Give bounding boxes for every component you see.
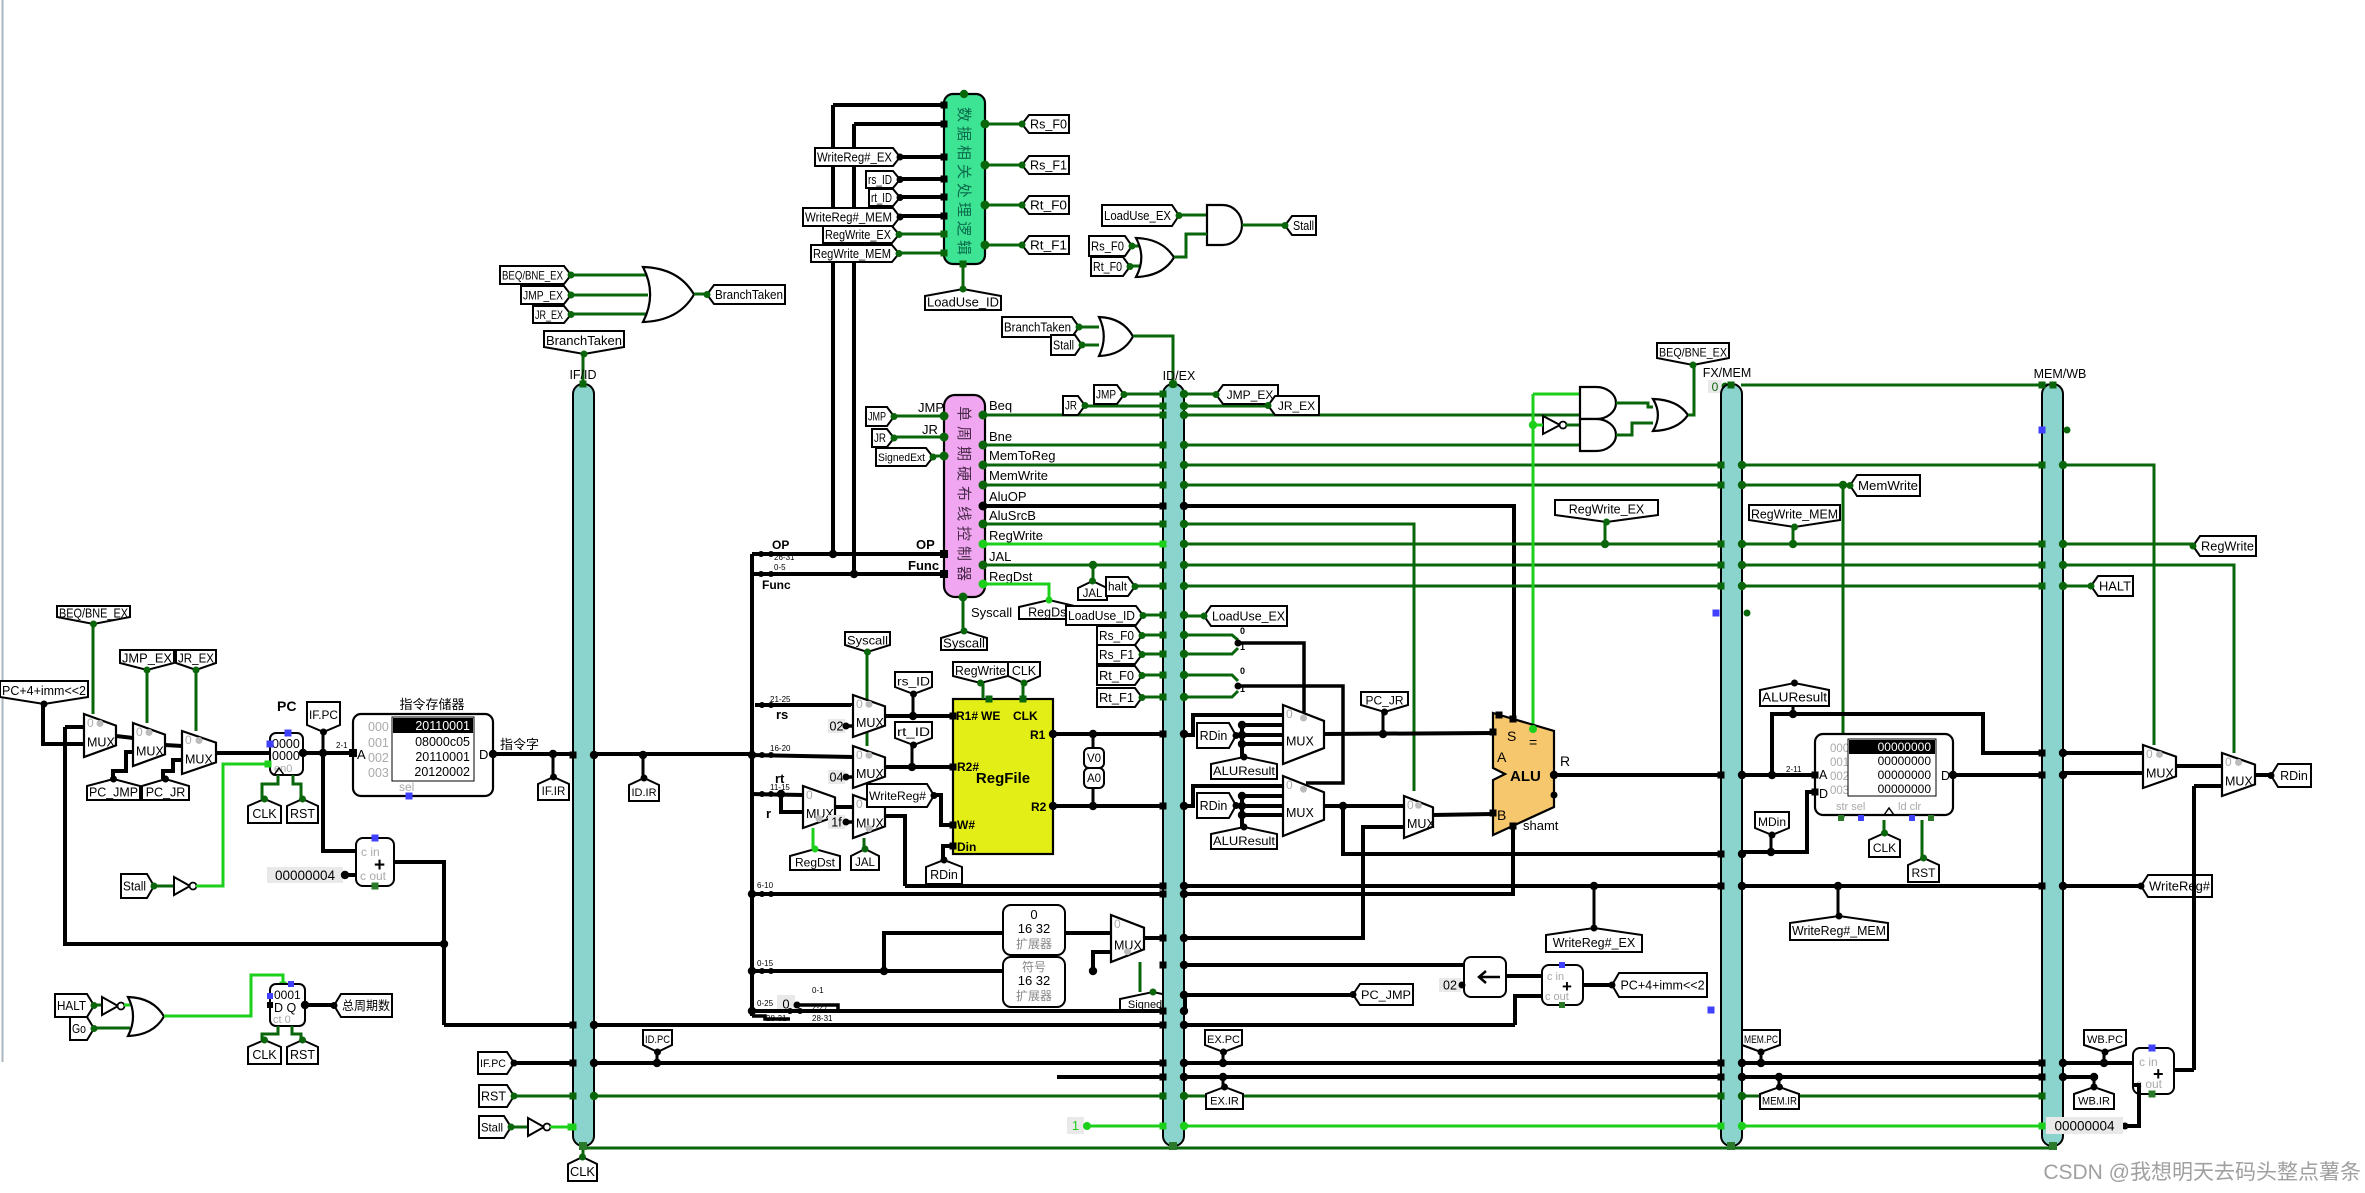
svg-text:rs_ID: rs_ID <box>868 173 892 187</box>
tunnel RegWrite_MEM (tap) <box>1749 505 1840 527</box>
svg-text:A: A <box>1497 749 1507 765</box>
svg-text:002: 002 <box>368 751 389 765</box>
svg-text:D Q: D Q <box>274 1001 297 1015</box>
tunnel Rs_F0 out <box>1022 115 1069 133</box>
svg-text:MUX: MUX <box>856 716 884 730</box>
wire RegWrite (ID side, high) <box>983 543 1163 546</box>
tunnel RegDst (sel) <box>790 849 840 870</box>
wire mux1 to mux2 <box>116 736 133 738</box>
instruction memory 指令存储器 <box>353 714 493 796</box>
wire constant-1 enable rail <box>1083 1125 2042 1128</box>
svg-text:RDin: RDin <box>2280 769 2308 783</box>
svg-text:CLK: CLK <box>1013 709 1038 723</box>
svg-text:PC_JMP: PC_JMP <box>1361 988 1411 1002</box>
svg-text:rt_ID: rt_ID <box>897 725 930 739</box>
ALU <box>1493 713 1554 835</box>
wire mux2 to mux3 <box>165 745 182 746</box>
or gate ID/EX bubble <box>1099 317 1133 356</box>
register cycle counter <box>270 984 305 1026</box>
tunnel rs_ID (tap) <box>895 672 932 694</box>
tunnel PC_JR (tap) <box>1361 692 1408 712</box>
svg-text:Rt_F0: Rt_F0 <box>1099 669 1134 683</box>
svg-text:Go: Go <box>72 1022 86 1036</box>
svg-text:R1: R1 <box>1030 728 1046 742</box>
tunnel Stall out <box>1285 216 1316 235</box>
svg-text:JMP_EX: JMP_EX <box>1227 388 1274 402</box>
wire WB PC+4 vertical (over tunnel) <box>2192 860 2196 910</box>
tunnel WriteReg#_MEM (hazard in) <box>803 208 900 226</box>
wire imm to shifter <box>1184 963 1464 967</box>
tunnel WriteReg#_EX (hazard in) <box>815 148 900 166</box>
svg-text:R: R <box>1560 753 1570 769</box>
wire PC+4 bus (IF adder out to EX adder) <box>444 1023 1515 1027</box>
wire shamt bits 6-10 rail to ALU <box>752 826 1513 894</box>
tunnel IF.IR <box>538 777 569 800</box>
and gate beq taken <box>1580 387 1616 419</box>
svg-text:FX/MEM: FX/MEM <box>1703 366 1752 380</box>
wire jmp to or <box>571 294 648 297</box>
svg-text:0: 0 <box>2146 747 2153 761</box>
pin V0 <box>1084 748 1104 768</box>
svg-text:00000004: 00000004 <box>2054 1118 2115 1133</box>
tunnel CLK (counter) <box>248 1040 281 1064</box>
wire count enable <box>164 975 283 1016</box>
mux forward B <box>1283 776 1324 836</box>
tunnel RST rail <box>479 1085 514 1107</box>
svg-text:MUX: MUX <box>856 767 884 781</box>
wire Beq <box>983 414 1582 417</box>
svg-text:IF.PC: IF.PC <box>309 710 338 722</box>
svg-text:RST: RST <box>290 1048 315 1062</box>
wire splitter stub <box>752 1016 790 1019</box>
svg-text:WB.PC: WB.PC <box>2087 1034 2123 1046</box>
svg-text:BEQ/BNE_EX: BEQ/BNE_EX <box>1659 345 1727 359</box>
svg-text:000: 000 <box>1830 743 1849 755</box>
svg-text:003: 003 <box>368 766 389 780</box>
wire ALU A input <box>1324 733 1493 734</box>
svg-text:00000000: 00000000 <box>1878 740 1932 754</box>
wire branch-flag zero rail FX/MEM to MEM/WB top <box>1741 384 2053 387</box>
or gate count enable <box>128 997 164 1036</box>
tunnel RST (counter) <box>287 1040 318 1064</box>
svg-text:Stall: Stall <box>1053 339 1074 353</box>
svg-text:EX.PC: EX.PC <box>1207 1034 1240 1046</box>
svg-text:Rt_F0: Rt_F0 <box>1030 199 1067 213</box>
wire MemData to WB mux <box>2064 771 2143 775</box>
wire rd mux to jal mux <box>835 805 853 809</box>
svg-text:00000004: 00000004 <box>275 868 336 883</box>
wire WriteReg# WB <box>2064 884 2141 888</box>
svg-text:PC_JR: PC_JR <box>146 786 186 800</box>
wire PC+4 feedback to mux1 <box>65 725 84 729</box>
svg-text:ALUResult: ALUResult <box>1762 691 1828 705</box>
wire address to RAM <box>1742 773 1815 777</box>
svg-text:MUX: MUX <box>87 736 115 750</box>
wire Rt_F1 out <box>985 244 1022 247</box>
adder PC+4 <box>356 838 394 886</box>
tunnel PC_JR <box>142 779 189 800</box>
tunnel Rt_F0 (to ID/EX) <box>1097 666 1142 685</box>
svg-text:MemWrite: MemWrite <box>1858 479 1918 493</box>
wire to WB mux2 <box>2176 764 2222 768</box>
tunnel IF.PC <box>307 702 340 732</box>
svg-text:Stall: Stall <box>1293 219 1314 233</box>
svg-text:R1#: R1# <box>956 709 978 723</box>
pipeline register ID/EX <box>1163 384 1184 1146</box>
wire branchtaken to IF/ID <box>582 354 585 384</box>
svg-text:PC+4+imm<<2: PC+4+imm<<2 <box>1620 979 1704 993</box>
svg-text:0: 0 <box>2225 755 2232 769</box>
svg-text:0: 0 <box>1286 778 1293 792</box>
tunnel CLK (PC) <box>248 799 281 823</box>
tunnel PC_JMP <box>87 779 140 800</box>
tunnel JAL (sel) <box>851 849 879 870</box>
svg-text:02: 02 <box>830 720 844 734</box>
wire imm to zero extender <box>884 933 1003 971</box>
svg-text:Rs_F1: Rs_F1 <box>1030 159 1067 173</box>
svg-text:HALT: HALT <box>57 999 86 1013</box>
tunnel MEM.IR (tap) <box>1760 1087 1799 1109</box>
svg-text:RST: RST <box>290 807 315 821</box>
tunnel halt <box>1106 577 1135 596</box>
tunnel PC+4+imm<<2 <box>0 681 88 704</box>
pipeline bar ports <box>570 752 577 759</box>
svg-text:2-11: 2-11 <box>1786 765 1802 774</box>
or gate branch outcome <box>1653 399 1688 431</box>
svg-text:RegWrite: RegWrite <box>2201 540 2254 554</box>
mux PC source 1 (branch) <box>84 714 116 757</box>
wire and1 to or <box>1616 403 1653 407</box>
pipeline register FX/MEM <box>1721 384 1742 1146</box>
svg-text:0-1: 0-1 <box>812 986 824 995</box>
zero extender 16->32 <box>1003 905 1065 955</box>
svg-text:CLK: CLK <box>1873 841 1896 855</box>
tunnel ALUResult (MEM tap) <box>1760 683 1829 706</box>
wire halt to HALT tunnel <box>2064 585 2091 588</box>
svg-text:IF/ID: IF/ID <box>569 368 596 382</box>
tunnel RDin (fwd A) <box>1197 723 1236 748</box>
wire writereg ex in (top) <box>833 103 944 107</box>
tunnel BranchTaken (IF/ID clear) <box>544 331 624 354</box>
svg-text:SignedExt: SignedExt <box>878 452 925 464</box>
svg-text:WB.IR: WB.IR <box>2078 1095 2110 1107</box>
svg-text:Stall: Stall <box>123 880 146 894</box>
svg-text:JMP: JMP <box>868 412 886 424</box>
svg-text:BEQ/BNE_EX: BEQ/BNE_EX <box>502 268 563 282</box>
wire ALU equal flag vertical <box>1532 394 1535 729</box>
tunnel JR_EX out <box>1268 396 1319 415</box>
svg-text:RegDst: RegDst <box>795 855 836 869</box>
svg-text:0: 0 <box>1240 626 1245 636</box>
svg-text:Func: Func <box>762 578 791 592</box>
wire WriteReg# to rail <box>885 816 905 886</box>
tunnel EX.IR (tap) <box>1206 1087 1243 1109</box>
tunnel RegWrite (WE) <box>953 662 1008 683</box>
or gate rs/rt forward <box>1136 238 1174 277</box>
wire Rs_F1 stub <box>1184 648 1238 654</box>
wire WriteReg# rail <box>905 884 2141 888</box>
tunnel PC_JMP out <box>1353 984 1413 1005</box>
wire to BEQ/BNE_EX tunnel <box>1688 365 1694 415</box>
wire equal to not <box>1533 424 1543 427</box>
svg-text:ID/EX: ID/EX <box>1163 369 1196 383</box>
svg-text:001: 001 <box>1830 757 1849 769</box>
svg-text:RegWrite_MEM: RegWrite_MEM <box>1751 508 1838 522</box>
svg-text:WriteReg#: WriteReg# <box>869 789 926 803</box>
wire R2 out <box>1053 804 1163 808</box>
wire Rs_F0 out <box>985 123 1022 126</box>
wire ALU B input <box>1433 814 1493 815</box>
wire bubble to ID/EX top <box>1133 336 1173 384</box>
svg-text:halt: halt <box>1108 582 1128 594</box>
svg-text:20120002: 20120002 <box>414 765 470 779</box>
tunnel LoadUse_EX (stall and) <box>1102 205 1179 226</box>
svg-text:D: D <box>1819 787 1828 801</box>
svg-text:A: A <box>357 747 366 762</box>
wire JAL (ID side) <box>983 564 1163 567</box>
wire MemWrite <box>983 484 1850 487</box>
not gate halt <box>102 997 118 1015</box>
tunnel WriteReg#_EX (tap) <box>1546 928 1642 952</box>
svg-text:S: S <box>1507 728 1516 744</box>
tunnel WriteReg#_MEM (tap) <box>1790 916 1888 940</box>
svg-text:PC_JMP: PC_JMP <box>89 786 138 800</box>
adder WB PC+4 <box>2133 1048 2174 1094</box>
svg-text:WriteReg#_MEM: WriteReg#_MEM <box>805 211 892 225</box>
svg-text:WriteReg#_EX: WriteReg#_EX <box>817 151 893 165</box>
svg-text:Rs_F1: Rs_F1 <box>1099 648 1134 662</box>
wire fwd B in jog <box>1240 796 1244 827</box>
tunnel JR_EX <box>176 650 216 670</box>
svg-text:rs_ID: rs_ID <box>897 674 930 688</box>
tunnel LoadUse_ID (to ID/EX) <box>1066 606 1143 625</box>
svg-text:MUX: MUX <box>136 745 164 759</box>
svg-text:WriteReg#_MEM: WriteReg#_MEM <box>1792 924 1886 938</box>
svg-text:B: B <box>1497 807 1506 823</box>
tunnel RegDst out <box>1019 600 1079 619</box>
svg-text:MemWrite: MemWrite <box>989 468 1048 483</box>
svg-text:RDin: RDin <box>930 868 958 882</box>
wire PC to branch adder <box>1515 996 1542 1025</box>
svg-text:002: 002 <box>1830 771 1849 783</box>
and gate Stall <box>1207 205 1242 245</box>
hazard detection unit 数据相关处理逻辑 <box>944 94 985 264</box>
wire jal select <box>863 838 866 849</box>
svg-text:04: 04 <box>830 771 844 785</box>
tunnel SignedExt (ctrl in) <box>876 448 933 466</box>
svg-text:Rs_F0: Rs_F0 <box>1091 240 1124 254</box>
wire jr to or <box>571 313 648 316</box>
svg-text:符号: 符号 <box>1022 959 1046 974</box>
wire R2# to regfile <box>885 765 953 769</box>
wire PC to IF adder <box>323 753 356 851</box>
svg-text:JMP_EX: JMP_EX <box>523 288 563 302</box>
svg-text:MEM.PC: MEM.PC <box>1744 1034 1778 1046</box>
svg-text:JAL: JAL <box>989 549 1011 564</box>
svg-text:rt_ID: rt_ID <box>871 191 892 205</box>
svg-text:扩展器: 扩展器 <box>1016 989 1052 1003</box>
svg-text:0: 0 <box>1712 380 1719 394</box>
svg-text:003: 003 <box>1830 785 1849 797</box>
svg-text:0001: 0001 <box>274 988 301 1002</box>
svg-text:000: 000 <box>368 720 389 734</box>
svg-text:0: 0 <box>1286 707 1293 721</box>
wire RST rail <box>514 1095 2042 1098</box>
tunnel RST (RAM) <box>1908 858 1939 882</box>
tunnel RegWrite_EX (tap) <box>1555 500 1658 522</box>
wire IF adder out <box>394 862 444 944</box>
tunnel IF.PC (to IF/ID) <box>478 1052 514 1074</box>
tunnel RDin (fwd B) <box>1197 793 1236 818</box>
tunnel rs_ID (hazard in) <box>866 171 900 188</box>
wire branch target to mux1 <box>43 704 84 744</box>
svg-text:RDin: RDin <box>1200 799 1228 813</box>
or gate BranchTaken <box>643 267 694 322</box>
svg-text:16-20: 16-20 <box>770 744 791 753</box>
svg-text:001: 001 <box>368 736 389 750</box>
tunnel JR (ctrl in) <box>872 429 894 447</box>
svg-text:JMP: JMP <box>1096 390 1116 402</box>
svg-text:MemToReg: MemToReg <box>989 448 1055 463</box>
svg-text:总周期数: 总周期数 <box>342 998 390 1013</box>
tunnel BEQ/BNE_EX <box>57 606 130 624</box>
tunnel Rt_F1 out <box>1022 236 1069 254</box>
wire IR riser <box>750 554 754 1016</box>
svg-text:MUX: MUX <box>1286 806 1314 820</box>
tunnel JMP (to ID/EX) <box>1094 385 1124 404</box>
shifter left 2 <box>1464 957 1506 997</box>
wire rs bits 21-25 <box>755 705 851 706</box>
svg-text:IF.PC: IF.PC <box>480 1058 506 1070</box>
register PC <box>270 733 303 775</box>
wire AluOP to ALU S <box>983 506 1514 719</box>
svg-text:JR: JR <box>874 433 886 445</box>
wire Rt_F0 stub <box>1184 675 1238 681</box>
wire and2 to or <box>1616 423 1653 435</box>
svg-text:0: 0 <box>185 733 192 747</box>
tunnel cycle count out <box>334 994 392 1017</box>
svg-text:JR_EX: JR_EX <box>178 652 215 666</box>
svg-text:JR_EX: JR_EX <box>535 308 563 322</box>
svg-text:AluSrcB: AluSrcB <box>989 508 1036 523</box>
svg-text:21-25: 21-25 <box>770 695 791 704</box>
adder branch target <box>1542 965 1583 1005</box>
pipeline register MEM/WB <box>2042 384 2063 1146</box>
tunnel CLK (RAM) <box>1869 833 1900 857</box>
svg-text:BranchTaken: BranchTaken <box>715 288 783 302</box>
svg-text:20110001: 20110001 <box>415 750 470 764</box>
svg-text:0: 0 <box>856 797 863 811</box>
svg-text:BranchTaken: BranchTaken <box>1004 321 1071 335</box>
wire beq/bne to or <box>571 274 648 277</box>
mux signed/unsigned imm <box>1111 915 1144 962</box>
svg-text:HALT: HALT <box>2099 580 2131 594</box>
svg-text:RegDst: RegDst <box>1028 606 1070 620</box>
tunnel BEQ/BNE_EX (branch or) <box>500 266 571 284</box>
svg-text:c out: c out <box>360 869 387 883</box>
svg-text:Rt_F0: Rt_F0 <box>1093 260 1122 274</box>
tunnel Rt_F0 out <box>1022 196 1069 214</box>
sign extender 16->32 <box>1003 957 1065 1007</box>
wire mux3 to PC <box>216 751 270 755</box>
tunnel WB.PC (tap) <box>2084 1030 2126 1052</box>
wire equal to AND1 <box>1533 393 1582 396</box>
tunnel RDin out <box>2271 764 2311 787</box>
wire rt to rd mux <box>781 794 803 812</box>
tunnel JMP_EX <box>120 650 174 670</box>
svg-text:JMP_EX: JMP_EX <box>122 652 173 666</box>
tunnel BranchTaken (flush or) <box>1002 317 1079 337</box>
svg-text:JR: JR <box>922 422 938 437</box>
not gate stall (IF/ID) <box>528 1118 544 1136</box>
svg-text:MUX: MUX <box>185 753 213 767</box>
wire RegWrite rail EX/MEM <box>1184 543 2042 546</box>
wire IF/ID enable <box>550 1126 573 1129</box>
svg-text:0-5: 0-5 <box>774 563 786 572</box>
mux forward A <box>1283 705 1324 764</box>
not gate stall invert <box>174 877 190 895</box>
svg-text:MUX: MUX <box>1286 735 1314 749</box>
svg-text:IF.IR: IF.IR <box>542 786 566 798</box>
tunnel JMP (ctrl in) <box>866 407 894 426</box>
svg-text:A: A <box>1819 768 1828 782</box>
tunnel SignedExt (sel) <box>1120 992 1186 1011</box>
mux PC source 3 (jr) <box>182 731 216 774</box>
svg-text:Stall: Stall <box>481 1120 503 1134</box>
svg-text:0: 0 <box>136 725 143 739</box>
svg-text:0: 0 <box>1240 666 1245 676</box>
wire WB PC+4 vertical <box>2192 786 2196 1070</box>
tunnel Rs_F0 (to ID/EX) <box>1097 626 1142 645</box>
svg-text:CLK: CLK <box>1012 664 1037 678</box>
svg-text:0000: 0000 <box>272 749 300 763</box>
tunnel MEM.PC (tap) <box>1742 1030 1780 1052</box>
svg-text:D: D <box>479 747 488 762</box>
svg-text:OP: OP <box>772 538 789 552</box>
svg-text:OP: OP <box>916 537 935 552</box>
svg-text:ID.IR: ID.IR <box>631 787 656 799</box>
svg-text:Rt_F1: Rt_F1 <box>1030 239 1067 253</box>
svg-text:MEM.IR: MEM.IR <box>1762 1095 1797 1107</box>
tunnel CLK (bottom) <box>568 1157 597 1181</box>
wire RegDst out <box>983 584 1049 600</box>
data memory RAM <box>1815 734 1953 815</box>
wire R1 to fwd A in0 <box>1184 715 1283 735</box>
svg-text:RegWrite: RegWrite <box>989 528 1043 543</box>
wire signedext select <box>1139 962 1142 992</box>
svg-text:PC_JR: PC_JR <box>1365 693 1403 707</box>
svg-text:CLK: CLK <box>570 1165 596 1179</box>
wire PC+4 to WB mux2 <box>2194 784 2222 788</box>
svg-text:Bne: Bne <box>989 429 1012 444</box>
svg-text:Syscall: Syscall <box>943 637 985 651</box>
tunnel JAL (to mux) <box>1078 581 1107 600</box>
wire Rs_F1 out <box>985 164 1022 167</box>
svg-text:RegWrite_EX: RegWrite_EX <box>825 228 892 242</box>
wire rt bits 16-20 <box>752 755 853 757</box>
wire jr select <box>195 670 198 731</box>
tunnel PC+4+imm<<2 out <box>1612 973 1707 997</box>
tunnel WB.IR (tap) <box>2074 1087 2114 1109</box>
svg-text:0: 0 <box>1030 907 1037 922</box>
wire Bne <box>983 444 1582 447</box>
pipeline register IF/ID <box>573 384 594 1146</box>
tunnel rt_ID (hazard in) <box>869 189 900 206</box>
svg-text:0: 0 <box>87 716 94 730</box>
svg-text:EX.IR: EX.IR <box>1210 1095 1239 1107</box>
svg-text:MUX: MUX <box>2146 767 2174 781</box>
svg-text:数据相关处理逻辑: 数据相关处理逻辑 <box>955 107 972 259</box>
